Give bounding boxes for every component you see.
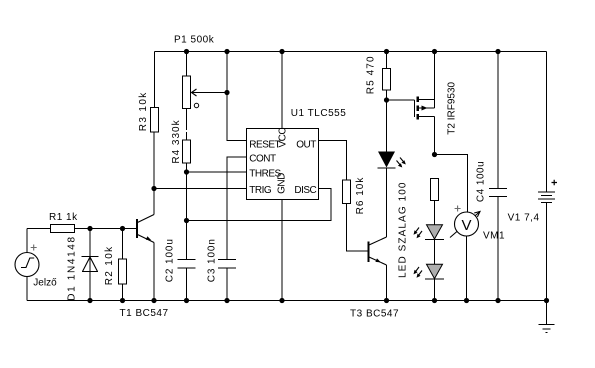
- wiper arrow: [192, 92, 228, 94]
- svg-text:R2 10k: R2 10k: [104, 246, 115, 286]
- junction dots top rail: [184, 49, 501, 54]
- svg-text:LED SZALAG 100: LED SZALAG 100: [398, 181, 409, 278]
- wire LED2 down: [434, 279, 436, 300]
- svg-text:U1 TLC555: U1 TLC555: [291, 108, 346, 119]
- junction dots bottom rail: [87, 298, 549, 303]
- svg-text:Jelző: Jelző: [33, 278, 57, 289]
- wire drain node to VM1: [435, 155, 468, 213]
- svg-text:R1 1k: R1 1k: [49, 212, 78, 223]
- signal source Jelző: [15, 245, 57, 289]
- svg-text:R5 470: R5 470: [366, 55, 377, 94]
- svg-text:T1 BC547: T1 BC547: [120, 308, 169, 319]
- wire R5 to LED: [386, 90, 388, 152]
- capacitor C2 100u: [165, 238, 196, 300]
- svg-text:C3 100n: C3 100n: [207, 238, 218, 282]
- IC U1 TLC555: [247, 108, 347, 200]
- wire source top: [26, 229, 28, 253]
- diode D1 1N4148: [67, 229, 99, 301]
- wire THRES net: [187, 171, 247, 173]
- capacitor C4 100u: [476, 52, 508, 301]
- svg-text:C4 100u: C4 100u: [476, 161, 487, 202]
- wire TRIG net: [154, 188, 247, 190]
- wire P1 to R4: [186, 109, 188, 130]
- wire GND pin: [281, 200, 283, 301]
- svg-text:GND: GND: [277, 173, 288, 194]
- svg-text:V: V: [461, 217, 471, 234]
- wire R6 to T3 base: [347, 204, 369, 252]
- wire RESET/wiper column: [227, 52, 247, 141]
- wire bottom ground rail: [27, 300, 547, 302]
- svg-text:T2 IRF9530: T2 IRF9530: [447, 81, 458, 134]
- wire top VCC rail: [155, 51, 547, 53]
- transistor T2 IRF9530: [415, 81, 458, 134]
- wire OUT to R6: [319, 141, 347, 181]
- svg-text:VCC: VCC: [278, 128, 289, 148]
- resistor LED SZALAG 100: [398, 179, 439, 278]
- LED D2: [378, 152, 406, 169]
- resistor R1 1k: [51, 225, 75, 233]
- svg-text:P1 500k: P1 500k: [174, 35, 215, 46]
- svg-text:CONT: CONT: [249, 153, 276, 164]
- wire T2 drain down: [434, 117, 436, 155]
- wire LED1 to LED2: [434, 240, 436, 265]
- capacitor C3 100n: [207, 238, 237, 300]
- wire gate net: [387, 99, 415, 101]
- wire R4 to C2 / THRES node: [186, 163, 188, 260]
- svg-text:DISC: DISC: [294, 185, 316, 196]
- svg-text:V1 7,4: V1 7,4: [508, 212, 540, 223]
- wire T2 source up: [434, 52, 436, 109]
- voltmeter VM1: [450, 206, 505, 242]
- wire T1 collector up / R3 column: [153, 132, 155, 215]
- transistor T1 BC547: [120, 215, 169, 320]
- svg-text:OUT: OUT: [296, 139, 316, 150]
- LED strip LED2: [414, 264, 445, 279]
- wire VCC pin: [281, 52, 283, 129]
- transistor T3 BC547: [350, 237, 399, 320]
- svg-text:VM1: VM1: [483, 231, 505, 242]
- wire VM1 down: [466, 236, 468, 301]
- wire T1 emitter down: [153, 243, 155, 301]
- resistor R6 10k: [343, 177, 367, 215]
- ground: [539, 301, 555, 333]
- svg-text:C2 100u: C2 100u: [165, 238, 176, 282]
- potentiometer P1 500k: [174, 35, 227, 109]
- LED strip LED1: [414, 225, 445, 240]
- svg-text:R6 10k: R6 10k: [355, 177, 366, 215]
- wire T3 emitter down: [386, 265, 388, 301]
- junction dots mid: [87, 90, 437, 231]
- resistor R5 470: [366, 52, 391, 95]
- wire CONT to C3 column: [227, 157, 247, 260]
- wire source bottom: [26, 277, 28, 301]
- svg-text:R3 10k: R3 10k: [138, 91, 149, 131]
- svg-text:D1 1N4148: D1 1N4148: [67, 235, 78, 300]
- svg-text:R4 330k: R4 330k: [171, 119, 182, 163]
- battery V1 7,4: [508, 52, 557, 301]
- wire T3 collector up to LED: [386, 168, 388, 237]
- resistor R3 10k: [138, 52, 159, 133]
- resistor R4 330k: [171, 119, 191, 163]
- wire strip column: [434, 201, 436, 226]
- wire base line: [27, 228, 137, 230]
- wire DISC wrap: [187, 189, 332, 221]
- svg-text:RESET: RESET: [249, 139, 280, 150]
- resistor R2 10k: [104, 229, 126, 301]
- svg-text:T3 BC547: T3 BC547: [350, 309, 399, 320]
- svg-text:TRIG: TRIG: [249, 185, 272, 196]
